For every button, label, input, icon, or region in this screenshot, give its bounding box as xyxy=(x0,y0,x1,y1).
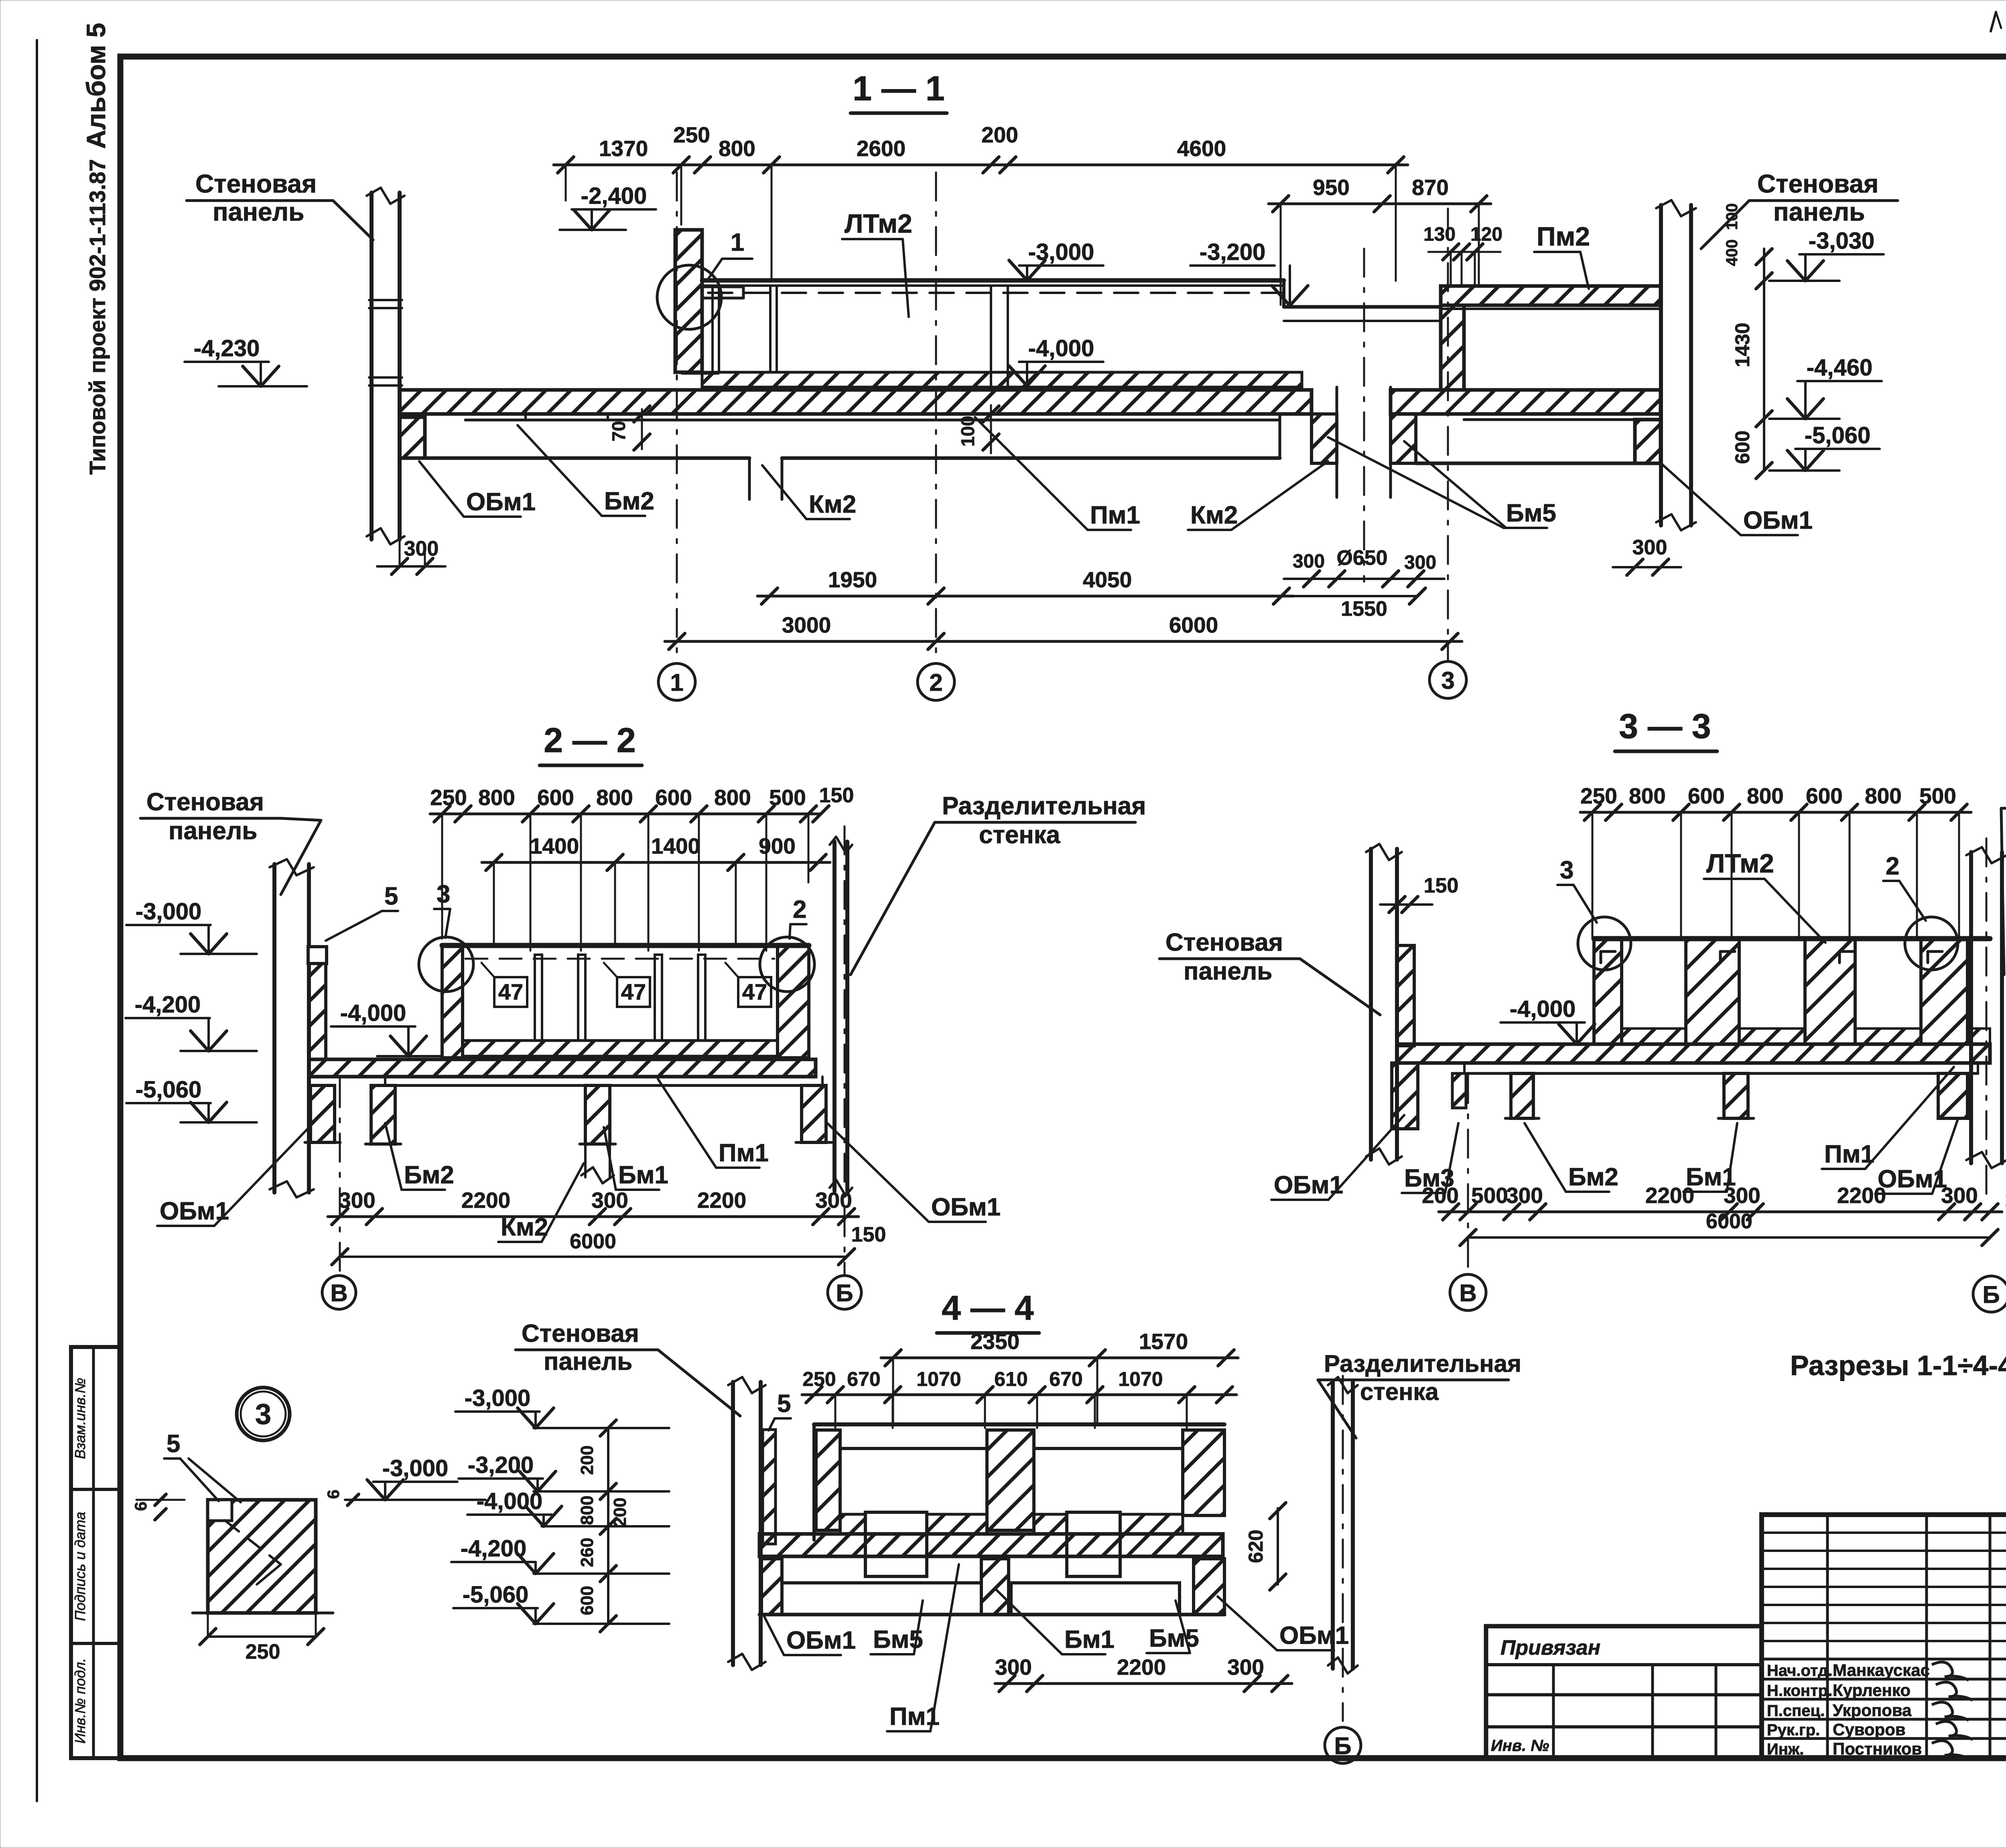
svg-text:610: 610 xyxy=(994,1368,1027,1390)
section 4-4 left wall panel xyxy=(731,1382,735,1665)
section 4-4 white beam block right upper xyxy=(1067,1512,1120,1576)
svg-text:Б: Б xyxy=(1334,1732,1351,1759)
svg-text:Стеновая: Стеновая xyxy=(195,169,317,198)
svg-text:3000: 3000 xyxy=(782,613,831,637)
svg-text:4600: 4600 xyxy=(1177,136,1226,161)
svg-text:6000: 6000 xyxy=(1706,1210,1752,1233)
svg-text:6: 6 xyxy=(131,1501,150,1511)
section 2-2 bottom dim line xyxy=(328,1215,859,1218)
section 4-4 mid hatched band left xyxy=(840,1514,987,1534)
section 2-2 tank right wall xyxy=(778,945,809,1058)
svg-text:-4,200: -4,200 xyxy=(135,992,201,1018)
svg-text:1: 1 xyxy=(731,229,744,256)
svg-text:Разделительная: Разделительная xyxy=(942,792,1146,820)
section 2-2 beam Bm1 Km2 below xyxy=(585,1085,610,1144)
section 2-2 beam OBm1 left below xyxy=(311,1085,335,1142)
section 2-2 boxed labels 47 xyxy=(494,977,527,1007)
title block central signatures table xyxy=(1762,1515,2006,1758)
section 4-4 center pillar hatched xyxy=(987,1430,1034,1530)
svg-text:Б: Б xyxy=(836,1280,853,1306)
svg-text:5: 5 xyxy=(166,1430,180,1458)
svg-text:1370: 1370 xyxy=(599,136,648,161)
svg-text:-3,000: -3,000 xyxy=(465,1385,530,1411)
section 2-2 floor slab Pm1 hatched xyxy=(309,1059,816,1077)
svg-text:ЛТм2: ЛТм2 xyxy=(1706,848,1774,878)
section 1-1 dimension line main top xyxy=(554,164,1408,166)
svg-text:300: 300 xyxy=(591,1188,628,1213)
section 3-3 beam OBm1 left below xyxy=(1392,1063,1418,1129)
section 2-2 dashed top line inside tank xyxy=(465,958,774,960)
svg-text:300: 300 xyxy=(1404,552,1436,573)
svg-text:6: 6 xyxy=(324,1489,343,1499)
svg-text:300: 300 xyxy=(1632,536,1667,559)
section 2-2 tank floor band xyxy=(463,1041,778,1056)
section 1-1 dims 300 650 300 under pit xyxy=(1284,578,1444,580)
section 3-3 left OBm1 wall xyxy=(1397,945,1414,1046)
svg-text:Инв. №: Инв. № xyxy=(1491,1737,1549,1755)
svg-text:ОБм1: ОБм1 xyxy=(786,1627,856,1654)
section 1-1 step slab -3.200 xyxy=(1282,280,1285,307)
svg-text:Типовой проект 902-1-113.87: Типовой проект 902-1-113.87 xyxy=(85,159,110,475)
svg-text:2350: 2350 xyxy=(971,1329,1019,1354)
section 2-2 beam OBm1 right below xyxy=(802,1085,826,1142)
section 4-4 under floor right OBm1 xyxy=(1194,1559,1224,1615)
svg-text:2200: 2200 xyxy=(1837,1183,1886,1208)
svg-text:1070: 1070 xyxy=(916,1368,961,1390)
section 1-1 left wall panel xyxy=(370,193,374,540)
svg-text:6000: 6000 xyxy=(570,1230,616,1253)
svg-text:500: 500 xyxy=(769,785,806,810)
svg-text:-4,000: -4,000 xyxy=(477,1488,542,1514)
svg-text:400: 400 xyxy=(1723,239,1741,266)
svg-text:Нач.отд.: Нач.отд. xyxy=(1767,1662,1832,1680)
svg-text:150: 150 xyxy=(2005,1188,2006,1211)
svg-text:-2,400: -2,400 xyxy=(581,183,647,209)
section 2-2 divider axis dashdot xyxy=(844,826,846,1276)
svg-text:950: 950 xyxy=(1313,175,1350,200)
svg-text:900: 900 xyxy=(759,834,796,858)
svg-text:3: 3 xyxy=(1560,856,1574,884)
svg-text:150: 150 xyxy=(1424,874,1459,897)
svg-text:200: 200 xyxy=(577,1445,597,1475)
svg-text:150: 150 xyxy=(851,1223,886,1246)
svg-text:-3,000: -3,000 xyxy=(382,1455,448,1481)
section 4-4 dim 620 right xyxy=(1277,1508,1279,1584)
section 1-1 dims 1950 4050 1550 xyxy=(757,595,1293,598)
svg-text:Укропова: Укропова xyxy=(1833,1701,1912,1720)
svg-text:800: 800 xyxy=(714,785,751,810)
section 3-3 beam Bm2 below xyxy=(1511,1073,1533,1118)
section 1-1 right wall panel xyxy=(1659,205,1663,525)
svg-text:300: 300 xyxy=(815,1188,852,1213)
section 2-2 axis dashdot B xyxy=(339,1079,341,1276)
section 1-1 beam bottom line left xyxy=(400,456,749,460)
svg-text:600: 600 xyxy=(1731,430,1754,464)
svg-text:250: 250 xyxy=(1580,783,1617,808)
svg-text:3: 3 xyxy=(437,880,450,908)
section 1-1 Pm2 left downstand xyxy=(1441,305,1464,390)
section 4-4 dim 2350 1570 xyxy=(881,1357,1238,1359)
svg-text:100: 100 xyxy=(957,416,978,447)
svg-text:250: 250 xyxy=(246,1640,280,1663)
svg-text:В: В xyxy=(330,1280,347,1306)
section 4-4 top slab lines xyxy=(814,1422,1224,1426)
section 1-1 L-wall with corner detail xyxy=(675,230,702,372)
section 2-2 right divider wall xyxy=(832,842,837,1191)
svg-text:В: В xyxy=(1459,1280,1476,1306)
svg-text:3: 3 xyxy=(1441,667,1454,694)
svg-text:1430: 1430 xyxy=(1731,323,1754,367)
section 2-2 floor soffit xyxy=(385,1084,822,1087)
svg-text:Инж.: Инж. xyxy=(1767,1740,1804,1758)
section 2-2 top dim extension lines xyxy=(530,814,532,951)
svg-text:2200: 2200 xyxy=(697,1188,746,1213)
svg-text:Разделительная: Разделительная xyxy=(1324,1350,1521,1377)
section 2-2 axis circle B xyxy=(828,1276,861,1309)
section 3-3 pillar 2 hatched xyxy=(1686,939,1739,1044)
section 4-4 floor slab hatched xyxy=(759,1534,1223,1556)
section 2-2 axis circle V xyxy=(322,1276,356,1309)
section 4-4 divider axis xyxy=(1342,1376,1344,1721)
section 4-4 under floor left OBm1 xyxy=(761,1559,782,1615)
svg-text:панель: панель xyxy=(544,1348,632,1375)
section 2-2 partition channel 2 xyxy=(655,955,662,1041)
detail 3 dashed anchor xyxy=(225,1520,281,1564)
section 3-3 axis dashdot V xyxy=(1467,1075,1469,1276)
svg-text:Суворов: Суворов xyxy=(1833,1720,1906,1739)
svg-text:800: 800 xyxy=(719,136,755,161)
section 1-1 main floor slab hatched left xyxy=(400,390,1312,414)
section 1-1 Km2 column break xyxy=(748,458,751,499)
detail 3 dim 250 xyxy=(208,1635,316,1638)
section 2-2 bottom dim 6000 xyxy=(340,1256,847,1258)
svg-text:Стеновая: Стеновая xyxy=(1165,929,1283,956)
svg-text:200: 200 xyxy=(1422,1183,1459,1208)
svg-text:1950: 1950 xyxy=(828,567,877,592)
svg-text:Пм1: Пм1 xyxy=(1090,501,1140,529)
svg-text:47: 47 xyxy=(498,979,523,1004)
svg-text:5: 5 xyxy=(384,882,398,910)
section 4-4 bottom line xyxy=(759,1613,1224,1617)
svg-text:600: 600 xyxy=(1688,783,1725,808)
section 2-2 partition channel 1 xyxy=(535,955,542,1041)
svg-text:200: 200 xyxy=(981,122,1018,147)
svg-text:Стеновая: Стеновая xyxy=(522,1320,639,1347)
section 3-3 dim 150 top left xyxy=(1380,903,1432,906)
svg-text:Манкаускас: Манкаускас xyxy=(1833,1661,1930,1680)
svg-text:Км2: Км2 xyxy=(809,491,856,518)
section 3-3 axis circle V xyxy=(1450,1274,1486,1310)
svg-text:2 — 2: 2 — 2 xyxy=(544,721,636,760)
section 1-1 ceiling slab joint verticals xyxy=(711,286,714,372)
svg-text:600: 600 xyxy=(655,785,692,810)
section 4-4 right pillar hatched xyxy=(1183,1430,1224,1515)
section 3-3 bottom dim line xyxy=(1439,1211,2002,1213)
section 1-1 beam bottom line right xyxy=(1416,462,1635,465)
section 1-1 ceiling slab LTm2 lines xyxy=(702,278,1284,283)
section 3-3 axis circle B xyxy=(1973,1276,2006,1312)
svg-text:2200: 2200 xyxy=(461,1188,510,1213)
svg-text:1570: 1570 xyxy=(1139,1329,1188,1354)
section 1-1 beam 47 detail 1 stub xyxy=(702,286,743,288)
section 3-3 floor slab hatched xyxy=(1397,1044,1990,1063)
section 4-4 bottom dims 300 2200 300 xyxy=(995,1682,1292,1685)
svg-text:250: 250 xyxy=(673,122,710,147)
svg-text:2: 2 xyxy=(1886,852,1899,880)
section 3-3 floor soffit xyxy=(1464,1072,1978,1075)
svg-text:2: 2 xyxy=(929,669,942,696)
svg-text:4 — 4: 4 — 4 xyxy=(942,1289,1034,1327)
svg-text:800: 800 xyxy=(1747,783,1784,808)
svg-text:-4,000: -4,000 xyxy=(340,1000,406,1026)
svg-text:Ø650: Ø650 xyxy=(1336,546,1387,570)
section 3-3 tank floor bands between pillars xyxy=(1622,1028,1686,1044)
svg-text:300: 300 xyxy=(995,1655,1032,1680)
section 1-1 axis circle 1 xyxy=(658,663,695,700)
svg-text:670: 670 xyxy=(847,1368,880,1390)
svg-text:150: 150 xyxy=(819,784,854,807)
svg-text:Бм2: Бм2 xyxy=(604,487,654,515)
svg-text:1: 1 xyxy=(670,669,683,696)
svg-text:Альбом 5: Альбом 5 xyxy=(81,23,111,149)
svg-text:800: 800 xyxy=(1629,783,1666,808)
section 2-2 tank top line xyxy=(442,943,809,948)
section 1-1 dim 300 left xyxy=(377,565,445,568)
svg-text:панель: панель xyxy=(1184,957,1272,985)
section 3-3 bottom dim 6000 xyxy=(1468,1236,1990,1239)
svg-text:300: 300 xyxy=(1293,551,1325,572)
section 4-4 dim line 250 670 1070 610 670 1070 xyxy=(802,1394,1236,1396)
section 1-1 tank floor band xyxy=(702,372,1302,387)
svg-text:2200: 2200 xyxy=(1117,1655,1166,1680)
svg-text:-4,460: -4,460 xyxy=(1807,355,1872,381)
svg-text:250: 250 xyxy=(430,785,467,810)
svg-text:Инв.№ подл.: Инв.№ подл. xyxy=(72,1658,88,1743)
section 2-2 beam Bm2 below xyxy=(371,1085,395,1144)
svg-text:-3,000: -3,000 xyxy=(136,899,201,925)
svg-text:панель: панель xyxy=(169,817,257,845)
svg-text:1 — 1: 1 — 1 xyxy=(853,69,944,108)
svg-text:Б: Б xyxy=(1982,1281,2000,1308)
svg-text:ОБм1: ОБм1 xyxy=(466,488,536,516)
svg-text:-3,200: -3,200 xyxy=(1200,239,1265,265)
svg-text:500: 500 xyxy=(1471,1183,1508,1208)
svg-text:ЛТм2: ЛТм2 xyxy=(845,209,912,238)
section 1-1 left wall panel joints xyxy=(369,299,402,301)
svg-text:47: 47 xyxy=(621,979,646,1004)
svg-text:300: 300 xyxy=(1227,1655,1264,1680)
svg-text:П.спец.: П.спец. xyxy=(1767,1702,1825,1720)
section 4-4 axis circle B xyxy=(1325,1727,1361,1763)
section 1-1 pit column Bm5 left xyxy=(1312,414,1337,463)
svg-text:Н.контр.: Н.контр. xyxy=(1767,1682,1832,1700)
svg-text:-5,060: -5,060 xyxy=(1805,422,1870,448)
detail 3 corner notch xyxy=(208,1500,232,1521)
svg-text:800: 800 xyxy=(1865,783,1902,808)
section 1-1 pit column Bm5 right xyxy=(1391,414,1416,463)
section 3-3 beams below Bm3 xyxy=(1452,1073,1466,1108)
svg-text:Бм1: Бм1 xyxy=(1064,1626,1115,1653)
svg-text:300: 300 xyxy=(1506,1183,1543,1208)
section 4-4 right divider wall xyxy=(1331,1382,1335,1669)
svg-text:200: 200 xyxy=(610,1497,630,1527)
section 2-2 tank left wall xyxy=(442,945,463,1058)
svg-text:Курленко: Курленко xyxy=(1833,1681,1911,1700)
svg-text:800: 800 xyxy=(478,785,515,810)
svg-text:Пм1: Пм1 xyxy=(1824,1140,1874,1168)
section 1-1 dim extension verticals top xyxy=(565,165,567,201)
section 2-2 detail circle on left tank wall xyxy=(419,937,473,992)
section 4-4 mid hatched band right xyxy=(1034,1514,1183,1534)
svg-text:-3,030: -3,030 xyxy=(1809,228,1874,254)
svg-text:-4,000: -4,000 xyxy=(1028,335,1094,361)
svg-text:Пм1: Пм1 xyxy=(719,1139,769,1167)
section 3-3 pillar 1 hatched xyxy=(1594,939,1622,1044)
svg-text:Стеновая: Стеновая xyxy=(146,788,264,816)
svg-text:600: 600 xyxy=(1806,783,1843,808)
detail 3 title circle xyxy=(237,1388,290,1440)
svg-text:6000: 6000 xyxy=(1169,613,1218,637)
svg-text:Привязан: Привязан xyxy=(1500,1636,1600,1659)
scan mark top center xyxy=(1991,12,1996,31)
svg-text:600: 600 xyxy=(577,1586,597,1615)
section 1-1 Pm2 hatched ceiling slab right xyxy=(1441,286,1661,305)
svg-text:ОБм1: ОБм1 xyxy=(931,1193,1001,1221)
svg-text:1400: 1400 xyxy=(530,834,579,858)
section 2-2 detail circle on right tank wall xyxy=(760,937,814,992)
left paper edge line xyxy=(36,40,38,1801)
svg-text:ОБм1: ОБм1 xyxy=(1743,507,1813,534)
section 3-3 detail circle 3 xyxy=(1578,917,1631,970)
section 4-4 under floor center column xyxy=(981,1559,1009,1615)
section 1-1 detail circle 1 xyxy=(657,265,721,329)
svg-text:600: 600 xyxy=(537,785,574,810)
svg-text:3: 3 xyxy=(255,1398,271,1430)
svg-text:1070: 1070 xyxy=(1118,1368,1163,1390)
section 1-1 OBm1 block left xyxy=(400,417,425,458)
svg-text:260: 260 xyxy=(577,1538,597,1567)
svg-text:47: 47 xyxy=(742,979,767,1004)
svg-text:Бм5: Бм5 xyxy=(1506,499,1556,527)
section 3-3 beam OBm1 right below xyxy=(1938,1073,1967,1118)
svg-text:870: 870 xyxy=(1412,175,1449,200)
section 1-1 dimension line 950 870 xyxy=(1269,203,1491,205)
svg-text:-4,230: -4,230 xyxy=(194,335,260,361)
section 3-3 detail circle 2 xyxy=(1905,917,1958,970)
section 3-3 razdelitelnaya stenka wall xyxy=(1969,852,1973,1163)
svg-text:5: 5 xyxy=(777,1390,791,1418)
title block signature squiggles xyxy=(1932,1662,1969,1680)
section 1-1 main floor slab hatched right xyxy=(1391,390,1661,414)
svg-text:120: 120 xyxy=(1470,224,1502,245)
detail 3 hatched block xyxy=(208,1500,316,1613)
svg-text:Разрезы 1-1÷4-4: Разрезы 1-1÷4-4 xyxy=(1790,1350,2006,1381)
svg-text:2: 2 xyxy=(793,896,806,923)
section 4-4 element 5 thin panel xyxy=(763,1430,776,1544)
section 1-1 pit opening walls xyxy=(1336,387,1338,497)
svg-text:300: 300 xyxy=(339,1188,376,1213)
section 1-1 axis dim 3000 6000 xyxy=(665,640,1462,643)
svg-text:Рук.гр.: Рук.гр. xyxy=(1767,1721,1820,1739)
svg-text:2200: 2200 xyxy=(1645,1183,1694,1208)
svg-text:300: 300 xyxy=(1941,1183,1978,1208)
svg-text:1550: 1550 xyxy=(1341,597,1387,621)
svg-text:620: 620 xyxy=(1245,1530,1267,1563)
section 1-1 OBm1 block right xyxy=(1635,420,1661,463)
svg-text:2600: 2600 xyxy=(857,136,906,161)
section 3-3 pillar 3 hatched xyxy=(1805,939,1855,1044)
section 1-1 axis circle 2 xyxy=(918,663,954,700)
section 4-4 white beam block left upper xyxy=(865,1512,927,1576)
svg-text:Пм2: Пм2 xyxy=(1537,221,1590,251)
svg-text:-4,000: -4,000 xyxy=(1510,996,1576,1022)
section 3-3 G corner marks on pillars xyxy=(1601,950,1615,953)
section 1-1 pit axis dashdot xyxy=(1363,249,1365,582)
svg-text:500: 500 xyxy=(1919,783,1956,808)
svg-text:-3,000: -3,000 xyxy=(1028,239,1094,265)
svg-text:70: 70 xyxy=(608,421,629,441)
title block left privyazan table xyxy=(1486,1626,1762,1758)
section 4-4 under floor white beam right xyxy=(1011,1583,1180,1615)
svg-text:4050: 4050 xyxy=(1083,567,1132,592)
svg-text:800: 800 xyxy=(577,1495,597,1525)
section 1-1 dim 300 right xyxy=(1613,566,1681,568)
section 1-1 axis dashdot lines xyxy=(676,172,678,662)
section 2-2 dim line 1400 1400 900 xyxy=(482,861,830,864)
svg-text:Км2: Км2 xyxy=(1190,501,1238,529)
section 2-2 left wall panel xyxy=(272,864,276,1193)
section 3-3 divider axis xyxy=(1986,838,1988,1195)
section 2-2 element 5 cap xyxy=(308,947,327,964)
section 3-3 top dim line xyxy=(1580,811,1971,814)
svg-text:3 — 3: 3 — 3 xyxy=(1619,707,1711,746)
svg-text:670: 670 xyxy=(1049,1368,1082,1390)
svg-text:Стеновая: Стеновая xyxy=(1757,169,1878,198)
svg-text:100: 100 xyxy=(1723,203,1741,230)
section 1-1 floor soffit lines xyxy=(465,419,1280,422)
svg-text:Взам.инв.№: Взам.инв.№ xyxy=(72,1378,88,1459)
svg-text:Бм2: Бм2 xyxy=(404,1161,454,1189)
svg-text:ОБм1: ОБм1 xyxy=(1279,1622,1349,1649)
section 3-3 left wall panel xyxy=(1369,849,1373,1160)
section 3-3 pillars top line xyxy=(1594,936,1990,941)
section 3-3 top dim extension lines xyxy=(1680,812,1682,939)
svg-text:стенка: стенка xyxy=(979,821,1060,849)
elevation ladder vertical dim chain xyxy=(607,1428,609,1624)
svg-text:130: 130 xyxy=(1423,224,1456,245)
svg-text:Бм2: Бм2 xyxy=(1568,1163,1618,1191)
svg-text:1400: 1400 xyxy=(651,834,700,858)
svg-text:300: 300 xyxy=(404,537,439,560)
svg-text:Подпись и дата: Подпись и дата xyxy=(72,1512,88,1621)
svg-text:250: 250 xyxy=(802,1368,836,1390)
section 4-4 left pillar hatched xyxy=(816,1430,840,1530)
section 3-3 pillar 4 hatched xyxy=(1921,939,1967,1044)
detail 3 bottom lines xyxy=(193,1612,333,1615)
section 3-3 beam Bm1 below xyxy=(1724,1073,1748,1118)
left margin box column xyxy=(71,1347,120,1758)
section 1-1 axis circle 3 xyxy=(1429,661,1466,698)
section 1-1 right vertical dim chain xyxy=(1763,249,1765,471)
svg-text:стенка: стенка xyxy=(1360,1378,1439,1405)
section 2-2 left OBm1 wall xyxy=(309,963,326,1059)
svg-text:-4,200: -4,200 xyxy=(461,1536,526,1562)
svg-text:Бм5: Бм5 xyxy=(1149,1625,1199,1652)
svg-text:300: 300 xyxy=(1724,1183,1760,1208)
section 4-4 under floor white beam left xyxy=(782,1583,981,1615)
svg-text:Постников: Постников xyxy=(1833,1739,1922,1758)
svg-text:800: 800 xyxy=(596,785,633,810)
